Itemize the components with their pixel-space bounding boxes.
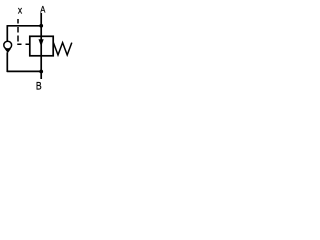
check valve ball: [4, 41, 12, 49]
wire: valve to bottom rail: [40, 56, 42, 71]
wire: left branch lower vertical: [6, 52, 8, 72]
spring W on valve right side: [53, 43, 71, 55]
wire: bottom rail to node B: [7, 70, 41, 72]
valve flow arrow (filled): [39, 39, 44, 46]
wire: port B stub: [40, 71, 42, 79]
valve flow path line: [40, 36, 42, 56]
check valve seat (filled triangle): [5, 49, 12, 53]
wire: top rail from left branch to node A: [7, 25, 41, 27]
svg-text:x: x: [18, 5, 23, 16]
wire: port A vertical line: [40, 13, 42, 36]
junction node at B rail: [39, 70, 43, 74]
pilot line x (dashed): [18, 19, 30, 44]
valve body U1 (square): [30, 36, 53, 56]
junction node at A rail: [39, 24, 43, 28]
wire: left branch upper vertical: [6, 25, 8, 41]
svg-text:B: B: [36, 81, 42, 93]
svg-text:A: A: [40, 4, 45, 15]
